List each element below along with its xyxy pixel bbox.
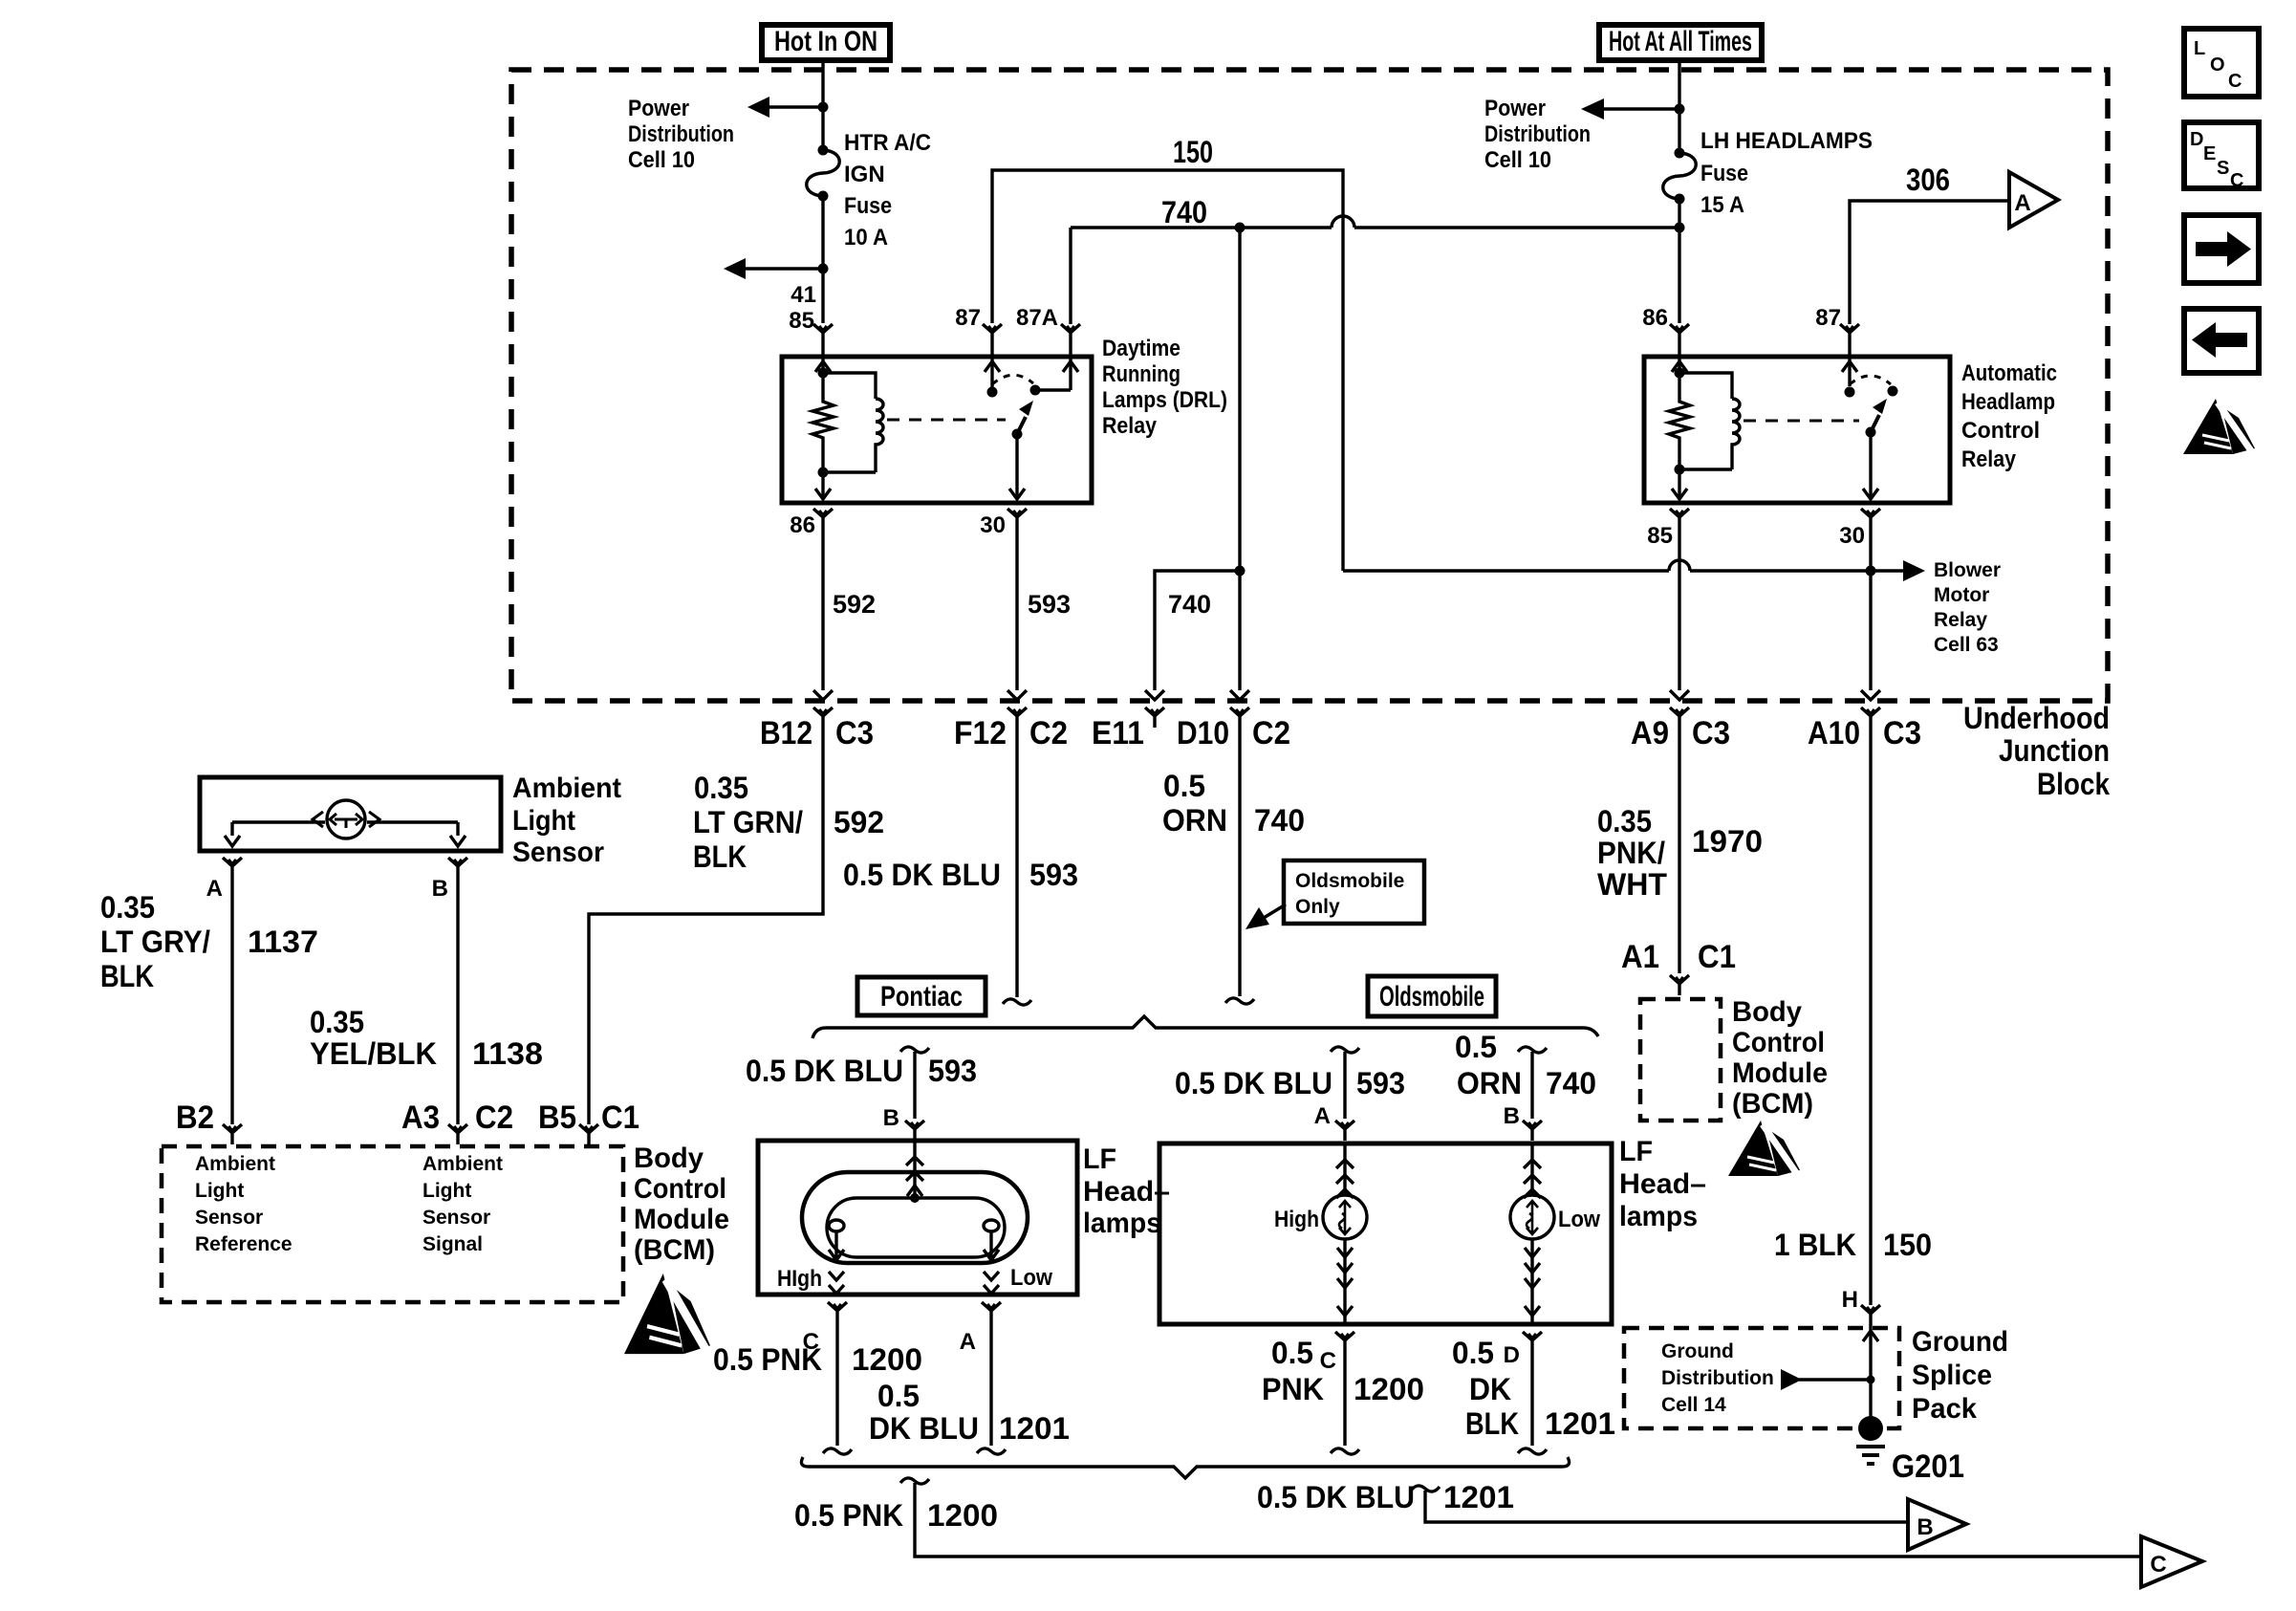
svg-text:Sensor: Sensor bbox=[512, 837, 604, 868]
svg-text:B: B bbox=[1504, 1103, 1520, 1129]
wire: 593 from DRL 30 to F12 bbox=[1015, 529, 1018, 690]
svg-text:A9: A9 bbox=[1631, 715, 1669, 751]
svg-text:Distribution: Distribution bbox=[628, 121, 734, 147]
svg-text:0.5 DK BLU: 0.5 DK BLU bbox=[843, 858, 1001, 892]
svg-text:85: 85 bbox=[789, 308, 814, 334]
svg-text:Ground: Ground bbox=[1912, 1326, 2008, 1358]
svg-text:(BCM): (BCM) bbox=[1732, 1088, 1813, 1120]
svg-text:A1: A1 bbox=[1621, 939, 1659, 975]
bulb: Low (Oldsmobile) bbox=[1530, 1143, 1533, 1195]
svg-text:D: D bbox=[2190, 129, 2203, 150]
wire end curl: 740 bbox=[1225, 998, 1254, 1004]
svg-text:Pontiac: Pontiac bbox=[880, 981, 963, 1012]
svg-text:Blower: Blower bbox=[1934, 559, 2001, 581]
coil: DRL relay winding bbox=[876, 399, 883, 472]
wire: 1201 from Pontiac A bbox=[989, 1322, 992, 1446]
svg-text:1200: 1200 bbox=[927, 1498, 998, 1533]
svg-text:Oldsmobile: Oldsmobile bbox=[1295, 870, 1404, 892]
svg-text:10 A: 10 A bbox=[844, 225, 888, 250]
wire: 1138 sensor B to A3 bbox=[456, 878, 459, 1124]
svg-text:Motor: Motor bbox=[1934, 584, 1989, 606]
bottom gather bracket bbox=[801, 1457, 1569, 1478]
node: DRL switch NO contact bbox=[987, 387, 998, 398]
label box: Hot At All Times bbox=[1599, 25, 1762, 60]
fuse F2: LH HEADLAMPS Fuse 15 A bbox=[1675, 148, 1685, 159]
wire: y597 horizontal to blower junction with hop over A9 wire bbox=[1343, 569, 1669, 572]
svg-text:A10: A10 bbox=[1808, 715, 1860, 751]
svg-text:B2: B2 bbox=[176, 1099, 214, 1136]
wire: 593 below F12 bbox=[1015, 728, 1018, 997]
connector: K2 pin 87 entry bbox=[1840, 324, 1859, 344]
wire: net 150 horizontal from DRL 87 bbox=[992, 170, 1343, 571]
svg-text:0.5 DK BLU: 0.5 DK BLU bbox=[1175, 1066, 1332, 1100]
fuse F1: HTR A/C IGN Fuse 10 A bbox=[818, 145, 829, 156]
svg-text:PNK: PNK bbox=[1262, 1372, 1324, 1406]
svg-text:D10: D10 bbox=[1177, 715, 1229, 751]
svg-text:WHT: WHT bbox=[1597, 867, 1667, 902]
svg-text:Fuse: Fuse bbox=[844, 193, 892, 219]
svg-text:Running: Running bbox=[1102, 361, 1180, 387]
svg-text:30: 30 bbox=[980, 512, 1006, 538]
LF Headlamps (Oldsmobile) box bbox=[1159, 1143, 1612, 1324]
resistor: DRL relay internal bbox=[812, 373, 834, 472]
svg-text:Pack: Pack bbox=[1912, 1393, 1977, 1425]
svg-text:High: High bbox=[1274, 1207, 1319, 1232]
svg-text:Cell 63: Cell 63 bbox=[1934, 634, 1999, 656]
svg-text:Module: Module bbox=[1732, 1057, 1828, 1089]
wire: 1201 from Olds D bbox=[1530, 1352, 1533, 1446]
svg-text:Ground: Ground bbox=[1661, 1340, 1734, 1362]
svg-text:592: 592 bbox=[833, 590, 876, 619]
svg-text:593: 593 bbox=[1356, 1066, 1405, 1100]
stub: Oldsmobile B wire 740 bbox=[1518, 1047, 1547, 1053]
connector: DRL pin 86 below box bbox=[813, 509, 833, 529]
node: K2 switch pivot bbox=[1888, 386, 1898, 397]
node: K2 switch NO contact bbox=[1845, 387, 1855, 398]
svg-text:1201: 1201 bbox=[1443, 1480, 1514, 1514]
node: tap to pin 41 (lower left arrow) bbox=[818, 264, 829, 274]
wire: DRL pin 86 exit with arrow bbox=[821, 472, 824, 499]
triangle reference A bbox=[2009, 172, 2058, 228]
svg-text:Ambient: Ambient bbox=[512, 773, 621, 804]
connector: DRL pin 87 entry bbox=[983, 324, 1002, 344]
svg-text:YEL/BLK: YEL/BLK bbox=[310, 1036, 437, 1071]
connector: Pontiac pin C bbox=[828, 1302, 847, 1322]
svg-text:C: C bbox=[2228, 71, 2242, 92]
wire: A10 down bbox=[1869, 529, 1872, 690]
svg-text:lamps: lamps bbox=[1083, 1208, 1161, 1239]
Pontiac bulb: outer shell bbox=[802, 1172, 1028, 1263]
svg-text:Hot In ON: Hot In ON bbox=[774, 26, 877, 57]
node: 740 branch dot bbox=[1235, 223, 1245, 233]
svg-text:DK: DK bbox=[1469, 1372, 1511, 1406]
LF Headlamps (Pontiac) box bbox=[758, 1141, 1077, 1295]
svg-text:Light: Light bbox=[512, 805, 575, 837]
svg-text:A: A bbox=[2014, 190, 2030, 216]
svg-text:DK BLU: DK BLU bbox=[869, 1411, 979, 1446]
wire: K2 pin 85 exit bbox=[1678, 469, 1680, 499]
svg-text:C3: C3 bbox=[1692, 715, 1730, 751]
connector: A1/C1 at BCM bbox=[1670, 975, 1689, 995]
svg-text:1200: 1200 bbox=[852, 1342, 922, 1377]
svg-text:740: 740 bbox=[1254, 803, 1305, 838]
label box: Hot In ON bbox=[762, 25, 890, 60]
svg-text:Body: Body bbox=[634, 1143, 704, 1174]
svg-text:Relay: Relay bbox=[1961, 446, 2017, 472]
wire: splice internal with up arrow bbox=[1869, 1325, 1872, 1428]
svg-text:Cell 10: Cell 10 bbox=[1484, 147, 1551, 173]
svg-text:Oldsmobile: Oldsmobile bbox=[1379, 981, 1484, 1012]
bulb: High (Oldsmobile) bbox=[1343, 1143, 1346, 1195]
connector: B5/C1 at BCM bbox=[579, 1124, 598, 1144]
svg-text:B12: B12 bbox=[760, 715, 812, 751]
connector: E11 at junction block boundary bbox=[1145, 690, 1164, 700]
svg-text:LF: LF bbox=[1083, 1143, 1116, 1175]
svg-text:0.35: 0.35 bbox=[310, 1005, 364, 1039]
svg-text:lamps: lamps bbox=[1619, 1201, 1698, 1232]
svg-text:1201: 1201 bbox=[999, 1411, 1070, 1446]
wire: coil top link bbox=[823, 373, 876, 399]
dashed link: DRL coil to switch bbox=[887, 419, 1006, 422]
connector: B2 at BCM bbox=[223, 1124, 242, 1144]
arrow: ground distribution link bbox=[1799, 1378, 1871, 1381]
connector: Olds pin D bbox=[1523, 1332, 1542, 1352]
ground splice pack dashed box bbox=[1624, 1328, 1899, 1428]
svg-text:740: 740 bbox=[1168, 590, 1211, 619]
svg-text:ORN: ORN bbox=[1457, 1066, 1522, 1100]
node: DRL coil bottom bbox=[818, 468, 829, 478]
node: DRL coil top bbox=[818, 368, 829, 379]
svg-text:Light: Light bbox=[422, 1180, 471, 1202]
node: power distribution tap (upper left) bbox=[818, 102, 829, 113]
svg-text:Control: Control bbox=[634, 1173, 726, 1205]
svg-text:C1: C1 bbox=[601, 1099, 639, 1136]
svg-text:O: O bbox=[2210, 54, 2225, 76]
switch arm: DRL relay bbox=[1017, 417, 1026, 434]
connector: DRL pin 87A entry bbox=[1061, 324, 1080, 344]
node: junction below 15A fuse bbox=[1675, 223, 1685, 233]
wire: 740 below D10 bbox=[1238, 728, 1241, 996]
relay K2: Automatic Headlamp Control Relay box bbox=[1644, 357, 1950, 503]
filament: Low (Pontiac) bbox=[984, 1220, 999, 1231]
svg-text:Sensor: Sensor bbox=[422, 1207, 490, 1229]
svg-text:C: C bbox=[1320, 1348, 1336, 1374]
svg-text:150: 150 bbox=[1883, 1228, 1932, 1262]
svg-text:0.35: 0.35 bbox=[100, 890, 155, 925]
filament: High (Pontiac) bbox=[829, 1220, 844, 1231]
body control module (BCM) dashed box left bbox=[162, 1146, 623, 1302]
ambient light sensor box bbox=[200, 777, 501, 851]
svg-text:1201: 1201 bbox=[1545, 1406, 1615, 1441]
wire: K2 pin 30 exit bbox=[1869, 432, 1872, 499]
svg-text:0.5: 0.5 bbox=[877, 1379, 920, 1413]
wire: B pin into bulb bbox=[913, 1141, 916, 1198]
svg-text:S: S bbox=[2217, 158, 2229, 179]
svg-text:B: B bbox=[883, 1105, 899, 1131]
connector: B12/C3 at junction block boundary bbox=[813, 690, 833, 700]
svg-text:593: 593 bbox=[928, 1054, 977, 1088]
connector: K2 pin 30 below box bbox=[1861, 509, 1880, 529]
connector: sensor pin A bbox=[223, 858, 242, 878]
photo sensor symbol bbox=[327, 800, 365, 838]
svg-text:593: 593 bbox=[1029, 858, 1078, 892]
svg-text:1200: 1200 bbox=[1354, 1372, 1424, 1406]
svg-text:Cell 10: Cell 10 bbox=[628, 147, 695, 173]
svg-text:150: 150 bbox=[1173, 135, 1213, 169]
svg-text:0.5 DK BLU: 0.5 DK BLU bbox=[1257, 1480, 1415, 1514]
svg-text:Cell 14: Cell 14 bbox=[1661, 1394, 1726, 1416]
svg-text:Body: Body bbox=[1732, 996, 1802, 1028]
wire end curl: 593 bbox=[1003, 999, 1031, 1005]
svg-text:IGN: IGN bbox=[844, 162, 885, 187]
body control module (BCM) dashed box right bbox=[1640, 999, 1721, 1121]
svg-text:D: D bbox=[1504, 1342, 1520, 1368]
svg-text:HTR A/C: HTR A/C bbox=[844, 130, 931, 156]
connector: Pontiac headlamp pin B bbox=[905, 1121, 924, 1141]
triangle reference B bbox=[1908, 1499, 1966, 1550]
svg-text:Headlamp: Headlamp bbox=[1961, 389, 2055, 415]
connector: H at ground splice pack bbox=[1861, 1305, 1880, 1325]
wire: 306 to A triangle bbox=[1850, 201, 2007, 324]
node: power distribution tap (right) bbox=[1675, 104, 1685, 115]
triangle reference C bbox=[2141, 1536, 2202, 1587]
svg-text:87A: 87A bbox=[1016, 305, 1058, 331]
wire: net 740 horizontal with hop bbox=[1071, 226, 1332, 229]
svg-text:PNK/: PNK/ bbox=[1597, 836, 1665, 870]
relay K1: Daytime Running Lamps (DRL) Relay box bbox=[782, 357, 1092, 503]
resistor: K2 internal bbox=[1669, 373, 1690, 469]
svg-text:E: E bbox=[2203, 143, 2216, 164]
svg-text:C1: C1 bbox=[1698, 939, 1736, 975]
margin icon: LOC box bbox=[2184, 29, 2259, 97]
svg-text:Low: Low bbox=[1558, 1207, 1600, 1232]
svg-text:41: 41 bbox=[791, 282, 816, 308]
dashed arc: K2 switch throw bbox=[1850, 376, 1891, 384]
svg-text:740: 740 bbox=[1161, 195, 1207, 229]
svg-text:86: 86 bbox=[1642, 305, 1668, 331]
svg-text:HIgh: HIgh bbox=[777, 1266, 822, 1292]
stub: 1201 feeder to B bbox=[1411, 1486, 1440, 1491]
svg-text:0.35: 0.35 bbox=[1597, 804, 1652, 838]
stub: 1200 feeder to C bbox=[900, 1478, 929, 1484]
svg-text:0.5: 0.5 bbox=[1163, 769, 1205, 803]
wire: 1137 sensor A to B2 bbox=[230, 878, 233, 1124]
svg-text:B: B bbox=[432, 876, 448, 902]
node: 740 split to E11 bbox=[1235, 566, 1245, 577]
svg-text:740: 740 bbox=[1546, 1066, 1596, 1100]
dashed arc: DRL switch throw bbox=[992, 375, 1033, 384]
svg-text:Power: Power bbox=[1484, 96, 1546, 121]
svg-text:0.5: 0.5 bbox=[1455, 1030, 1497, 1064]
arrow: Oldsmobile Only pointer bbox=[1264, 904, 1286, 918]
svg-text:Distribution: Distribution bbox=[1484, 121, 1591, 147]
svg-text:Head–: Head– bbox=[1619, 1168, 1706, 1200]
svg-text:Only: Only bbox=[1295, 896, 1340, 918]
node: blower motor relay tap bbox=[1866, 566, 1876, 577]
svg-text:Module: Module bbox=[634, 1204, 729, 1235]
connector: A9/C3 at junction block boundary bbox=[1670, 690, 1689, 700]
wire: 592 with jog to B5 bbox=[589, 728, 823, 1124]
wire: 1200 from Olds C bbox=[1343, 1352, 1346, 1446]
svg-text:BLK: BLK bbox=[1465, 1406, 1519, 1441]
wire: 740 down to D10 bbox=[1238, 228, 1241, 690]
svg-text:ORN: ORN bbox=[1162, 803, 1227, 838]
wire: E11 branch bbox=[1155, 571, 1240, 690]
svg-text:Control: Control bbox=[1732, 1027, 1825, 1058]
svg-text:87: 87 bbox=[955, 305, 981, 331]
svg-text:30: 30 bbox=[1839, 523, 1865, 549]
Pontiac bulb: inner shell bbox=[827, 1198, 1005, 1257]
connector: DRL pin 30 below box bbox=[1007, 509, 1027, 529]
connector: DRL pin 85 entry bbox=[813, 324, 833, 344]
svg-text:Automatic: Automatic bbox=[1961, 360, 2057, 386]
svg-text:Distribution: Distribution bbox=[1661, 1367, 1774, 1389]
svg-text:C2: C2 bbox=[1252, 715, 1290, 751]
margin icon: ESD warning bbox=[2183, 399, 2255, 454]
svg-text:Light: Light bbox=[195, 1180, 244, 1202]
svg-text:C: C bbox=[2150, 1552, 2166, 1578]
svg-text:0.5: 0.5 bbox=[1452, 1336, 1494, 1370]
svg-text:0.5 DK BLU: 0.5 DK BLU bbox=[746, 1054, 903, 1088]
svg-text:Low: Low bbox=[1010, 1265, 1052, 1291]
svg-text:LF: LF bbox=[1619, 1136, 1653, 1167]
margin icon: right arrow box bbox=[2184, 215, 2259, 283]
svg-text:C: C bbox=[2230, 170, 2243, 191]
connector: F12/C2 at junction block boundary bbox=[1007, 690, 1027, 700]
node: DRL switch pivot bbox=[1030, 385, 1041, 396]
stub: Pontiac B wire 593 bbox=[900, 1047, 929, 1053]
svg-text:0.5: 0.5 bbox=[1271, 1336, 1313, 1370]
svg-text:H: H bbox=[1842, 1287, 1858, 1313]
underhood junction block dashed box bbox=[511, 70, 2108, 701]
connector: A10/C3 at junction block boundary bbox=[1861, 690, 1880, 700]
svg-text:Control: Control bbox=[1961, 418, 2040, 444]
svg-text:(BCM): (BCM) bbox=[634, 1234, 715, 1266]
wire: battery feed from Hot At All Times bbox=[1678, 60, 1680, 323]
connector: Olds headlamp pin A bbox=[1335, 1121, 1354, 1141]
svg-text:A: A bbox=[206, 876, 223, 902]
svg-text:Underhood: Underhood bbox=[1963, 701, 2110, 735]
svg-text:Daytime: Daytime bbox=[1102, 336, 1180, 361]
label box: Pontiac bbox=[857, 977, 986, 1015]
svg-text:Sensor: Sensor bbox=[195, 1207, 263, 1229]
connector: D10/C2 at junction block boundary bbox=[1230, 690, 1249, 700]
wire: 592 from DRL 86 to B12 bbox=[821, 529, 824, 690]
connector: sensor pin B bbox=[448, 858, 467, 878]
margin icon: left arrow box bbox=[2184, 309, 2259, 373]
ESD symbol (left BCM) bbox=[624, 1274, 710, 1354]
svg-text:Ambient: Ambient bbox=[195, 1153, 275, 1175]
ground G201 bbox=[1858, 1416, 1883, 1441]
svg-text:BLK: BLK bbox=[693, 839, 747, 874]
svg-text:Hot At All Times: Hot At All Times bbox=[1609, 26, 1752, 57]
svg-text:Relay: Relay bbox=[1934, 609, 1987, 631]
svg-text:1137: 1137 bbox=[248, 925, 318, 959]
switch arm: K2 bbox=[1871, 415, 1879, 432]
coil: K2 winding bbox=[1732, 399, 1740, 469]
svg-text:1 BLK: 1 BLK bbox=[1774, 1228, 1856, 1262]
svg-text:C2: C2 bbox=[475, 1099, 513, 1136]
ESD symbol (right BCM) bbox=[1728, 1121, 1800, 1176]
wire: A10 ground 150 down to H bbox=[1869, 728, 1872, 1305]
svg-text:Splice: Splice bbox=[1912, 1360, 1992, 1391]
variant bracket (Pontiac / Oldsmobile) bbox=[812, 1016, 1598, 1038]
label box: Oldsmobile bbox=[1368, 976, 1496, 1016]
svg-text:BLK: BLK bbox=[100, 959, 154, 993]
svg-text:Power: Power bbox=[628, 96, 689, 121]
connector: K2 pin 85 below box bbox=[1670, 509, 1689, 529]
svg-text:87: 87 bbox=[1815, 305, 1841, 331]
svg-text:A: A bbox=[960, 1329, 976, 1355]
svg-text:Lamps (DRL): Lamps (DRL) bbox=[1102, 387, 1227, 413]
svg-text:1138: 1138 bbox=[472, 1036, 543, 1071]
svg-text:Fuse: Fuse bbox=[1700, 161, 1748, 186]
node: K2 coil top bbox=[1675, 368, 1685, 379]
svg-text:306: 306 bbox=[1906, 163, 1950, 197]
svg-text:LT GRY/: LT GRY/ bbox=[100, 925, 210, 959]
wire: A9 feed down bbox=[1678, 529, 1680, 690]
svg-text:Junction: Junction bbox=[1999, 733, 2110, 768]
node: DRL switch arm contact bbox=[1012, 429, 1023, 440]
svg-text:Reference: Reference bbox=[195, 1233, 292, 1255]
svg-text:G201: G201 bbox=[1892, 1448, 1964, 1485]
node: K2 coil bottom bbox=[1675, 465, 1685, 475]
svg-text:C2: C2 bbox=[1029, 715, 1068, 751]
svg-text:L: L bbox=[2194, 38, 2205, 59]
margin icon: DESC box bbox=[2184, 122, 2259, 188]
wire: DRL pin 30 exit bbox=[1015, 434, 1018, 499]
svg-text:B5: B5 bbox=[538, 1099, 576, 1136]
svg-text:0.5 PNK: 0.5 PNK bbox=[794, 1498, 903, 1533]
svg-text:C3: C3 bbox=[1883, 715, 1921, 751]
node: K2 switch arm contact bbox=[1866, 427, 1876, 438]
dashed link: K2 coil to switch bbox=[1744, 420, 1859, 423]
svg-text:Relay: Relay bbox=[1102, 413, 1158, 439]
wire: A9 1970 down to A1 bbox=[1678, 728, 1680, 973]
svg-text:Head–: Head– bbox=[1083, 1176, 1170, 1208]
wire: 1200 from Pontiac C bbox=[835, 1322, 838, 1446]
svg-text:15 A: 15 A bbox=[1700, 192, 1744, 218]
connector: Olds headlamp pin B bbox=[1523, 1121, 1542, 1141]
svg-text:0.5 PNK: 0.5 PNK bbox=[713, 1342, 822, 1377]
svg-text:B: B bbox=[1917, 1514, 1933, 1540]
connector: Olds pin C bbox=[1335, 1332, 1354, 1352]
label box: Oldsmobile Only bbox=[1284, 860, 1424, 924]
svg-text:Block: Block bbox=[2037, 767, 2110, 801]
connector: A3/C2 at BCM bbox=[448, 1124, 467, 1144]
svg-text:A: A bbox=[1314, 1103, 1331, 1129]
svg-text:C3: C3 bbox=[835, 715, 874, 751]
stub: Oldsmobile A wire 593 bbox=[1331, 1047, 1359, 1053]
svg-text:E11: E11 bbox=[1092, 715, 1144, 751]
connector: K2 pin 86 entry bbox=[1670, 324, 1689, 344]
connector: Pontiac pin A bbox=[982, 1302, 1001, 1322]
wire: ignition feed from Hot In ON bbox=[821, 60, 824, 323]
svg-text:85: 85 bbox=[1647, 523, 1673, 549]
svg-text:86: 86 bbox=[790, 512, 815, 538]
svg-text:LT GRN/: LT GRN/ bbox=[693, 805, 803, 839]
svg-text:Ambient: Ambient bbox=[422, 1153, 503, 1175]
svg-text:0.35: 0.35 bbox=[694, 771, 748, 805]
svg-text:LH HEADLAMPS: LH HEADLAMPS bbox=[1700, 128, 1873, 154]
svg-text:1970: 1970 bbox=[1692, 824, 1763, 859]
svg-text:593: 593 bbox=[1028, 590, 1071, 619]
svg-text:F12: F12 bbox=[954, 715, 1007, 751]
sensor internal wiring bbox=[232, 820, 458, 823]
svg-text:592: 592 bbox=[834, 805, 884, 839]
svg-text:Signal: Signal bbox=[422, 1233, 483, 1255]
svg-text:A3: A3 bbox=[401, 1099, 440, 1136]
